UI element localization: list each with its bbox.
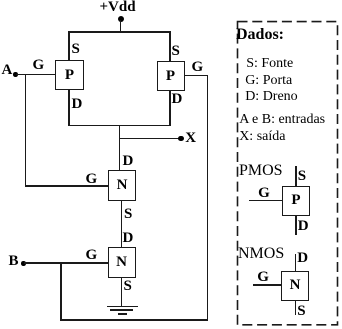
- pin label D of M1: [72, 97, 83, 112]
- legend line A e B: entradas: [239, 113, 325, 127]
- wire drain rail: [68, 125, 171, 127]
- pin label S of M3: [124, 207, 132, 222]
- node X: [178, 136, 184, 142]
- node A: [13, 72, 18, 77]
- wire M3 source to M4 drain: [121, 201, 123, 248]
- pin label G of M4: [86, 248, 98, 263]
- legend PMOS label: [239, 163, 283, 179]
- wire Vdd drop: [120, 20, 122, 32]
- wire M2 drain: [169, 91, 171, 126]
- wire A branch down: [25, 74, 27, 187]
- node B: [21, 261, 26, 266]
- wire M1 drain: [68, 90, 70, 126]
- wire to output X: [119, 138, 179, 140]
- transistor M2 PMOS: [157, 61, 185, 91]
- wire B to M4 gate: [24, 262, 108, 264]
- wire top rail: [68, 31, 171, 33]
- transistor M4 NMOS: [108, 247, 136, 278]
- legend line X: saida: [239, 130, 285, 144]
- pin label S of M1: [72, 42, 80, 57]
- pin label S of M2: [172, 44, 180, 59]
- wire bottom return: [60, 319, 208, 321]
- pin label D of M4: [123, 231, 134, 246]
- ground: [107, 306, 138, 315]
- output X label: [185, 131, 196, 146]
- pin label D of M3: [123, 154, 134, 169]
- pin label G of M3: [86, 172, 98, 187]
- pin label G of M2: [192, 60, 204, 75]
- wire B riser: [207, 75, 209, 321]
- node Vdd: [118, 16, 124, 22]
- wire B branch down: [60, 262, 62, 321]
- legend NMOS label: [238, 246, 284, 262]
- legend NMOS symbol: [245, 243, 340, 323]
- transistor M3 NMOS: [108, 170, 136, 201]
- wire A to M3 gate: [25, 185, 109, 187]
- pin label S of M4: [124, 279, 132, 294]
- wire M1 source: [68, 31, 70, 60]
- wire output drop: [119, 125, 121, 171]
- transistor M1 PMOS: [55, 60, 84, 90]
- input A label: [2, 63, 13, 78]
- legend PMOS symbol: [245, 160, 340, 240]
- wire A to M1 gate: [16, 74, 56, 76]
- wire M2 gate stub: [185, 75, 209, 77]
- power +Vdd label: [100, 0, 136, 15]
- legend title Dados:: [236, 27, 284, 43]
- legend line G: Porta: [245, 74, 292, 88]
- legend line D: Dreno: [245, 90, 298, 104]
- legend line S: Fonte: [246, 57, 293, 71]
- pin label G of M1: [33, 58, 45, 73]
- input B label: [9, 254, 19, 269]
- wire M2 source: [169, 31, 171, 61]
- pin label D of M2: [172, 92, 183, 107]
- wire M4 source: [121, 278, 123, 307]
